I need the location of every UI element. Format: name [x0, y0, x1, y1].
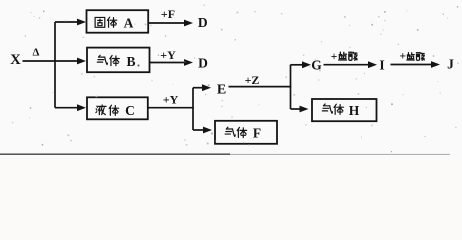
wire vertical branch 2	[192, 88, 194, 130]
wire to box F	[193, 129, 205, 131]
arrowhead into box H	[300, 106, 309, 113]
svg-text:+Y: +Y	[163, 93, 179, 107]
text liquid C : 液体C	[96, 105, 106, 115]
svg-text:+Z: +Z	[245, 73, 260, 87]
speck after B	[138, 65, 140, 67]
wire X main horizontal	[23, 60, 80, 62]
wire I to J	[391, 64, 434, 66]
wire E to branch 3	[229, 86, 292, 88]
arrowhead into box F	[203, 127, 212, 134]
svg-text:J: J	[447, 57, 454, 72]
box gas H	[312, 99, 377, 121]
svg-text:+F: +F	[161, 7, 175, 21]
svg-text:C: C	[125, 103, 135, 118]
svg-text:A: A	[124, 16, 134, 31]
svg-text:B: B	[126, 54, 135, 69]
svg-text:Δ: Δ	[33, 47, 40, 59]
wire to G	[291, 64, 305, 66]
svg-text:+Y: +Y	[160, 48, 176, 62]
svg-text:+: +	[400, 51, 407, 63]
svg-text:X: X	[10, 52, 21, 68]
svg-text:I: I	[379, 58, 384, 73]
text gas B : 气体B	[97, 55, 107, 64]
arrowhead to D lower	[184, 59, 193, 66]
arrowhead to E	[202, 84, 211, 91]
arrowhead to J	[431, 61, 440, 68]
svg-text:E: E	[217, 83, 226, 98]
svg-text:D: D	[198, 56, 208, 71]
box liquid C	[87, 97, 148, 119]
arrowhead to I	[368, 61, 377, 68]
wire vertical branch 3	[290, 65, 292, 109]
svg-text:F: F	[253, 126, 261, 141]
svg-text:+: +	[331, 51, 338, 63]
arrowhead into box A	[77, 19, 86, 26]
wire to box A	[55, 21, 79, 23]
box gas B	[87, 48, 150, 73]
box gas F	[215, 121, 277, 144]
box solid A	[87, 10, 149, 33]
bottom scan line right faint	[230, 153, 450, 155]
bottom scan line left	[0, 153, 230, 155]
wire G to I	[324, 64, 371, 66]
arrowhead to D upper	[184, 20, 193, 27]
wire box C to branch 2	[148, 107, 194, 109]
text solid A : 固体A	[95, 17, 105, 27]
svg-text:H: H	[349, 103, 360, 118]
wire to box H	[291, 108, 301, 110]
arrowhead into box C	[77, 104, 86, 111]
wire box A to D	[148, 22, 186, 24]
wire box B to D	[149, 62, 186, 64]
arrowhead into box B	[77, 58, 86, 65]
svg-text:D: D	[198, 15, 208, 30]
wire to E	[193, 87, 204, 89]
text gas H : 气体H	[322, 104, 332, 113]
wire to box C	[55, 107, 79, 109]
scan speckles	[150, 25, 151, 26]
wire vertical branch 1	[54, 22, 56, 108]
text gas F : 气体F	[225, 127, 235, 136]
arrowhead to G	[302, 61, 311, 68]
